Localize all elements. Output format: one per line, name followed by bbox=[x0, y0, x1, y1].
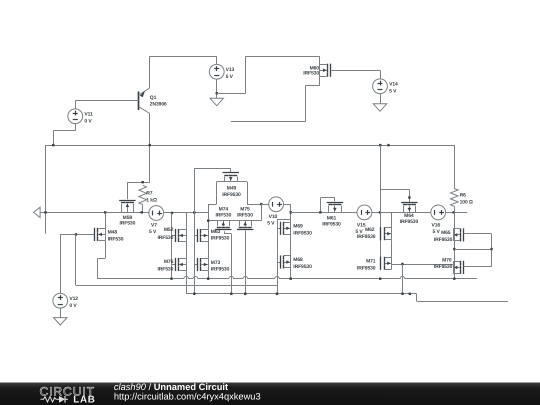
svg-text:M69: M69 bbox=[293, 223, 303, 229]
svg-text:M52: M52 bbox=[164, 227, 174, 233]
svg-text:LAB: LAB bbox=[73, 394, 95, 405]
svg-text:IRF9530: IRF9530 bbox=[357, 265, 376, 271]
svg-text:IRF9530: IRF9530 bbox=[434, 237, 453, 243]
svg-text:5 V: 5 V bbox=[226, 74, 234, 80]
svg-text:M62: M62 bbox=[365, 227, 375, 233]
svg-text:IRF9530: IRF9530 bbox=[400, 219, 419, 225]
svg-text:M71: M71 bbox=[366, 259, 376, 265]
svg-text:M73: M73 bbox=[211, 260, 221, 266]
svg-text:IRF530: IRF530 bbox=[108, 236, 124, 242]
svg-text:IRF9530: IRF9530 bbox=[434, 264, 453, 270]
svg-text:IRF530: IRF530 bbox=[303, 71, 319, 77]
svg-text:IRF9530: IRF9530 bbox=[293, 264, 312, 270]
svg-text:M65: M65 bbox=[441, 230, 451, 236]
svg-text:5 V: 5 V bbox=[389, 89, 397, 95]
svg-text:M76: M76 bbox=[164, 259, 174, 265]
svg-text:0 V: 0 V bbox=[69, 303, 77, 309]
svg-text:IRF9530: IRF9530 bbox=[211, 236, 230, 242]
svg-text:V13: V13 bbox=[226, 67, 235, 73]
svg-text:M68: M68 bbox=[293, 257, 303, 263]
svg-text:M49: M49 bbox=[227, 185, 237, 191]
svg-text:IRF530: IRF530 bbox=[216, 213, 232, 219]
svg-text:IRF9530: IRF9530 bbox=[293, 230, 312, 236]
svg-text:IRF530: IRF530 bbox=[158, 235, 174, 241]
svg-text:IRF530: IRF530 bbox=[158, 266, 174, 272]
svg-text:100 Ω: 100 Ω bbox=[460, 200, 473, 206]
svg-text:1 kΩ: 1 kΩ bbox=[146, 198, 157, 204]
svg-text:Q1: Q1 bbox=[150, 95, 157, 101]
svg-text:http://circuitlab.com/c4ryx4qx: http://circuitlab.com/c4ryx4qxkewu3 bbox=[114, 391, 261, 401]
svg-text:V12: V12 bbox=[69, 296, 78, 302]
svg-text:R7: R7 bbox=[146, 191, 153, 197]
svg-text:IRF9530: IRF9530 bbox=[211, 267, 230, 273]
svg-text:IRF9530: IRF9530 bbox=[222, 192, 241, 198]
svg-text:IRF9530: IRF9530 bbox=[322, 221, 341, 227]
svg-text:R6: R6 bbox=[460, 193, 467, 199]
svg-text:IRF530: IRF530 bbox=[237, 213, 253, 219]
svg-text:V16: V16 bbox=[432, 223, 441, 229]
svg-text:5 V: 5 V bbox=[433, 229, 441, 235]
svg-text:IRF530: IRF530 bbox=[120, 221, 136, 227]
svg-text:V11: V11 bbox=[84, 112, 93, 118]
svg-text:V10: V10 bbox=[269, 214, 278, 220]
svg-text:M48: M48 bbox=[108, 229, 118, 235]
svg-text:0 V: 0 V bbox=[84, 119, 92, 125]
svg-text:5 V: 5 V bbox=[149, 229, 157, 235]
svg-text:IRF9530: IRF9530 bbox=[357, 234, 376, 240]
svg-text:5 V: 5 V bbox=[267, 221, 275, 227]
svg-text:2N3906: 2N3906 bbox=[150, 102, 167, 108]
svg-text:V7: V7 bbox=[151, 222, 157, 228]
svg-text:V14: V14 bbox=[389, 82, 398, 88]
svg-text:M70: M70 bbox=[442, 257, 452, 263]
